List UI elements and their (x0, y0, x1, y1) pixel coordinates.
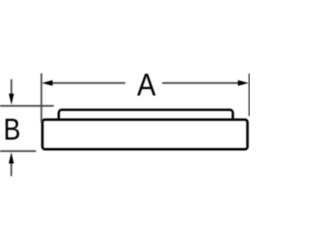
extension line bottom (dimension B) (0, 150, 36, 152)
arrowhead A left (42, 80, 53, 86)
battery cap (top plate) (59, 110, 233, 132)
battery body (main case) (42, 120, 247, 150)
label A (137, 74, 156, 96)
arrow B bottom (pointing up) (10, 163, 12, 176)
dimension line A right segment (162, 82, 238, 84)
extension line right (dimension A) (248, 74, 250, 117)
arrow B top (pointing down) (10, 79, 12, 94)
arrowhead A right (238, 80, 249, 86)
extension line left (dimension A) (40, 73, 42, 122)
label B (6, 119, 20, 140)
dimension line A left segment (52, 82, 125, 84)
extension line top (dimension B) (0, 105, 54, 107)
